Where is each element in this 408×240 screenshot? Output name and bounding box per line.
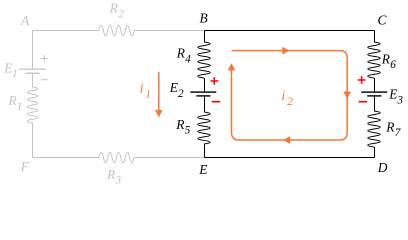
wire: bottom segment node E to node D xyxy=(205,157,375,159)
i2 loop arrowhead right (top side) xyxy=(282,47,289,55)
svg-text:E: E xyxy=(388,87,397,102)
E1 plus sign xyxy=(40,55,48,63)
svg-text:R: R xyxy=(381,51,390,66)
svg-text:3: 3 xyxy=(115,175,122,187)
wire: R1 down to node F xyxy=(32,123,34,158)
wire: node C down to R6 xyxy=(374,31,376,43)
svg-text:C: C xyxy=(378,12,388,27)
wire: top segment node B to node C xyxy=(205,30,375,32)
svg-text:R: R xyxy=(176,46,185,61)
wire: R7 down to node D xyxy=(374,147,376,158)
wire: node B down to R4 xyxy=(204,31,206,43)
svg-text:2: 2 xyxy=(178,88,184,100)
svg-text:1: 1 xyxy=(17,101,23,113)
wire: E1 to R1 xyxy=(32,74,34,88)
wire: E2 to R5 xyxy=(204,96,206,112)
resistor R7 xyxy=(368,111,381,147)
wire: top segment from node A to R2 (gray) xyxy=(33,30,100,32)
svg-text:1: 1 xyxy=(145,89,151,101)
i2 loop arrowhead up (left side) xyxy=(228,63,236,70)
svg-text:3: 3 xyxy=(396,94,403,106)
current arrow i1 xyxy=(158,72,160,112)
battery E3 short plate xyxy=(367,95,381,96)
svg-text:7: 7 xyxy=(395,127,401,139)
resistor R3 xyxy=(99,152,134,162)
E2 minus sign xyxy=(212,101,221,103)
wire: node A down to battery E1 xyxy=(32,31,34,69)
svg-text:B: B xyxy=(200,11,208,26)
i2 loop arrowhead down (right side) xyxy=(343,92,351,99)
svg-text:4: 4 xyxy=(185,53,191,65)
E2 plus sign xyxy=(211,77,219,85)
battery E1 short plate xyxy=(25,73,40,74)
svg-text:R: R xyxy=(175,117,184,132)
battery E2 short plate xyxy=(196,95,210,96)
svg-text:R: R xyxy=(8,93,17,108)
E3 minus sign xyxy=(359,101,367,103)
svg-text:R: R xyxy=(109,1,118,16)
svg-text:R: R xyxy=(106,167,115,182)
svg-text:E: E xyxy=(198,162,207,177)
resistor R4 xyxy=(198,42,211,78)
svg-text:E: E xyxy=(169,80,178,95)
svg-text:1: 1 xyxy=(12,68,18,80)
wire: R2 to node B xyxy=(134,30,205,32)
wire: E3 to R7 xyxy=(374,96,376,111)
svg-text:E: E xyxy=(3,60,12,75)
svg-text:R: R xyxy=(385,119,394,134)
svg-text:5: 5 xyxy=(185,125,191,137)
svg-text:6: 6 xyxy=(390,59,396,71)
wire: R6 to battery E3 xyxy=(374,78,376,92)
E1 minus sign xyxy=(41,79,48,81)
resistor R1 xyxy=(27,87,38,123)
svg-text:2: 2 xyxy=(287,96,293,108)
battery E3 long plate xyxy=(361,91,387,92)
i2 mesh current loop xyxy=(232,51,348,140)
wire: R5 down to node E xyxy=(204,144,206,158)
battery E2 long plate xyxy=(190,91,216,92)
svg-text:F: F xyxy=(20,159,30,174)
svg-text:i: i xyxy=(281,89,285,104)
resistor R6 xyxy=(368,42,381,78)
wire: bottom segment node F to R3 xyxy=(33,157,100,159)
wire: R4 to battery E2 xyxy=(204,78,206,92)
i2 loop arrowhead left (bottom side) xyxy=(283,136,290,144)
svg-text:A: A xyxy=(20,13,30,28)
resistor R2 xyxy=(99,25,134,35)
svg-text:D: D xyxy=(377,160,388,175)
svg-text:i: i xyxy=(140,82,144,97)
resistor R5 xyxy=(198,112,211,144)
battery E1 long plate xyxy=(19,69,46,70)
wire: R3 to node E xyxy=(134,157,205,159)
circuit schematic: two-mesh circuit, sources E1-E3, resistors R1-R7 xyxy=(0,0,408,187)
E3 plus sign xyxy=(358,76,366,84)
svg-text:2: 2 xyxy=(118,9,124,21)
